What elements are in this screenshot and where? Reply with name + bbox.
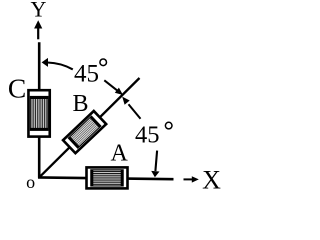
svg-text:C: C (8, 73, 26, 104)
svg-text:Y: Y (30, 0, 46, 22)
svg-text:o: o (26, 172, 35, 192)
svg-text:45: 45 (135, 122, 160, 149)
svg-text:X: X (202, 165, 221, 194)
svg-text:B: B (72, 91, 88, 117)
svg-text:45: 45 (74, 60, 99, 87)
svg-text:A: A (111, 141, 129, 167)
